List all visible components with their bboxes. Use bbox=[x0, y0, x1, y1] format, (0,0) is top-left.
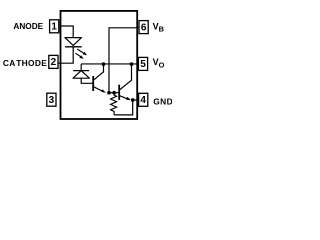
transistor Q2 bbox=[119, 64, 131, 100]
wire resistor bottom loop to emitter node bbox=[114, 100, 133, 115]
junction resistor top bbox=[112, 91, 116, 95]
pin 4 box bbox=[139, 93, 148, 106]
svg-text:2: 2 bbox=[51, 57, 57, 68]
svg-text:5: 5 bbox=[140, 59, 146, 70]
LED emission arrow 1 bbox=[77, 49, 87, 55]
svg-text:4: 4 bbox=[140, 95, 146, 106]
pin 6 stub wire bbox=[136, 27, 139, 29]
svg-text:GND: GND bbox=[153, 96, 172, 106]
node N1 junction bbox=[107, 91, 111, 95]
wire base of Q2 bbox=[109, 92, 119, 94]
svg-text:3: 3 bbox=[49, 95, 55, 106]
wire anode: pin1 to LED top bbox=[61, 26, 74, 38]
pin 1 stub wire bbox=[59, 25, 62, 27]
resistor R1 bbox=[111, 93, 117, 115]
pin 2 stub wire bbox=[58, 62, 62, 64]
pin 2 box bbox=[49, 55, 58, 68]
svg-text:ANODE: ANODE bbox=[13, 22, 43, 31]
collector rail bbox=[81, 63, 137, 65]
svg-text:VB: VB bbox=[153, 22, 164, 34]
pin 5 box bbox=[138, 57, 147, 70]
transistor Q1 bbox=[93, 64, 106, 93]
svg-text:6: 6 bbox=[141, 22, 147, 33]
wire photodiode anode to Q1 base bbox=[81, 78, 93, 83]
junction Q2 collector bbox=[130, 62, 134, 66]
pin 3 box bbox=[47, 93, 56, 106]
LED emission arrow 2 bbox=[75, 53, 83, 59]
wire VB: pin6 down to base node N1 bbox=[109, 28, 137, 93]
pin 4 stub wire bbox=[133, 99, 139, 101]
package outline bbox=[61, 11, 138, 119]
svg-text:VO: VO bbox=[153, 57, 165, 70]
node N2 junction (emitter / GND) bbox=[131, 98, 135, 102]
junction Q1 collector bbox=[102, 62, 106, 66]
svg-text:1: 1 bbox=[51, 22, 57, 33]
wire photodiode cathode to rail bbox=[80, 64, 82, 71]
pin 6 box bbox=[139, 21, 148, 34]
svg-text:CATHODE: CATHODE bbox=[3, 58, 47, 68]
photodiode D2 bbox=[73, 71, 89, 79]
LED D1 bbox=[65, 38, 82, 47]
pin 5 stub wire bbox=[136, 63, 138, 65]
pin 1 box bbox=[50, 20, 59, 33]
wire cathode: LED bottom to pin2 bbox=[61, 47, 74, 63]
